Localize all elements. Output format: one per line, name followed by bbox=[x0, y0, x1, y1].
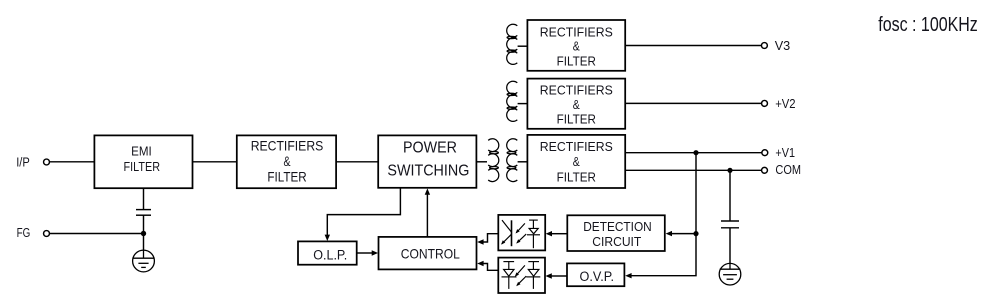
svg-text:EMI: EMI bbox=[131, 144, 152, 159]
svg-text:CONTROL: CONTROL bbox=[401, 245, 460, 261]
svg-text:I/P: I/P bbox=[16, 154, 30, 169]
rectifiers and filter box 1 bbox=[527, 20, 625, 71]
V3 terminal bbox=[761, 43, 767, 49]
COM terminal bbox=[762, 167, 768, 173]
wire EMI box to capacitor C1 bbox=[143, 188, 145, 209]
arrow into power switching bottom bbox=[425, 188, 430, 194]
OVP box bbox=[567, 263, 624, 286]
PC1 photo arrows bbox=[516, 223, 525, 232]
node on +V1 rail bbox=[693, 150, 698, 155]
capacitor C2 bbox=[721, 220, 739, 222]
wire capacitor C1 to ground bbox=[143, 215, 145, 250]
input rectifiers and filter box bbox=[237, 135, 336, 188]
svg-text:O.V.P.: O.V.P. bbox=[580, 269, 615, 284]
svg-text:&: & bbox=[573, 39, 580, 54]
wire COM rail to capacitor C2 bbox=[729, 170, 731, 221]
arrow into OLP top bbox=[325, 235, 330, 241]
PC1 phototransistor bbox=[502, 220, 512, 246]
wire I/P to EMI filter bbox=[50, 161, 95, 163]
wire FG to ground node bbox=[50, 233, 144, 235]
control box bbox=[379, 237, 477, 270]
wire rectifier 2 to V2 terminal bbox=[625, 102, 761, 104]
svg-text:POWER: POWER bbox=[403, 140, 457, 157]
rectifiers and filter box 2 bbox=[527, 79, 625, 129]
ground symbol G1 bbox=[133, 250, 155, 272]
transformer T1 secondary coil 2 bbox=[507, 81, 518, 121]
wire OLP to control bbox=[357, 252, 373, 254]
arrow into detection right bbox=[666, 231, 672, 236]
svg-text:DETECTION: DETECTION bbox=[583, 219, 652, 234]
wire OVP to photocoupler 2 bbox=[552, 275, 568, 277]
svg-text:FILTER: FILTER bbox=[557, 112, 596, 127]
transformer T1 secondary coil 1 bbox=[507, 24, 518, 64]
wire power switching to OLP bbox=[327, 188, 400, 236]
svg-text:CIRCUIT: CIRCUIT bbox=[592, 234, 641, 249]
node on COM rail bbox=[727, 168, 732, 173]
wire +V1 rail down to detection and OVP bbox=[631, 153, 696, 276]
wire detection to photocoupler 1 bbox=[552, 233, 568, 235]
wire PC1 to control bbox=[483, 234, 498, 242]
svg-text:FILTER: FILTER bbox=[557, 169, 596, 184]
svg-text:RECTIFIERS: RECTIFIERS bbox=[540, 24, 613, 39]
capacitor C1 bbox=[136, 209, 151, 211]
arrow into control right bottom bbox=[477, 261, 483, 266]
wire secondary 3 to rectifier box 3 bbox=[518, 161, 528, 163]
arrow into control left bbox=[372, 250, 378, 255]
svg-text:SWITCHING: SWITCHING bbox=[387, 163, 469, 180]
ground symbol G2 bbox=[719, 263, 741, 285]
svg-text:RECTIFIERS: RECTIFIERS bbox=[251, 139, 324, 154]
svg-text:+V2: +V2 bbox=[775, 96, 795, 111]
rectifiers and filter box 3 bbox=[527, 135, 625, 188]
FG terminal bbox=[44, 231, 50, 237]
+V2 terminal bbox=[762, 100, 768, 106]
EMI filter box bbox=[94, 135, 192, 188]
transformer T1 primary coil bbox=[488, 139, 499, 182]
photocoupler PC2 box bbox=[498, 258, 545, 293]
wire PC2 to control bbox=[483, 264, 498, 271]
wire rectifiers to power switching bbox=[336, 161, 378, 163]
PC2 photodiode bbox=[502, 262, 517, 289]
wire control to power switching bbox=[426, 194, 428, 237]
svg-text:COM: COM bbox=[775, 162, 801, 177]
wire capacitor C2 to ground bbox=[729, 228, 731, 264]
wire secondary 1 to rectifier box 1 bbox=[518, 45, 528, 47]
OLP box bbox=[298, 241, 357, 264]
+V1 terminal bbox=[762, 150, 768, 156]
svg-text:FILTER: FILTER bbox=[267, 170, 306, 185]
wire rectifier 3 to COM terminal bbox=[625, 169, 761, 171]
photocoupler PC1 box bbox=[498, 215, 545, 251]
svg-text:O.L.P.: O.L.P. bbox=[313, 248, 347, 263]
wire EMI to rectifiers bbox=[193, 161, 237, 163]
svg-text:FILTER: FILTER bbox=[124, 159, 161, 174]
power switching box bbox=[378, 135, 476, 187]
wire secondary 2 to rectifier box 2 bbox=[518, 103, 528, 105]
svg-text:&: & bbox=[284, 154, 291, 169]
svg-text:&: & bbox=[573, 97, 580, 112]
arrow into control right top bbox=[477, 239, 483, 244]
arrow into OVP right bbox=[625, 273, 631, 278]
node detection branch bbox=[693, 231, 698, 236]
wire branch to detection circuit bbox=[672, 233, 696, 235]
PC1 LED bbox=[527, 220, 540, 248]
arrow into photocoupler 2 bbox=[545, 273, 551, 278]
PC2 photo arrows bbox=[516, 265, 525, 275]
arrow into photocoupler 1 bbox=[546, 231, 552, 236]
wire power switching to transformer primary bbox=[476, 161, 487, 163]
I/P terminal bbox=[44, 159, 50, 165]
wire rectifier 1 to V3 terminal bbox=[625, 45, 761, 47]
wire rectifier 3 to V1 terminal bbox=[625, 152, 762, 154]
svg-text:FG: FG bbox=[17, 225, 31, 240]
transformer T1 secondary coil 3 bbox=[507, 139, 518, 182]
svg-text:RECTIFIERS: RECTIFIERS bbox=[540, 83, 613, 98]
detection circuit box bbox=[567, 215, 665, 251]
svg-text:V3: V3 bbox=[775, 38, 791, 53]
node FG junction bbox=[141, 231, 146, 236]
svg-text:+V1: +V1 bbox=[775, 145, 795, 160]
PC2 LED bbox=[526, 262, 540, 289]
svg-text:&: & bbox=[573, 154, 580, 169]
svg-text:RECTIFIERS: RECTIFIERS bbox=[540, 139, 613, 154]
svg-text:fosc : 100KHz: fosc : 100KHz bbox=[878, 14, 978, 36]
svg-text:FILTER: FILTER bbox=[557, 53, 596, 68]
